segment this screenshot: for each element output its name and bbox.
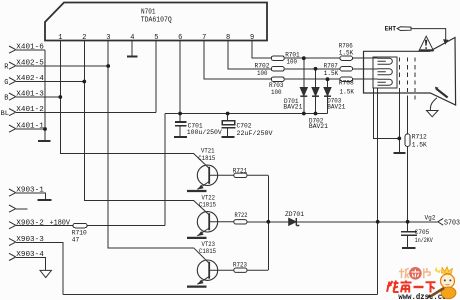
wire R710 to riser — [87, 225, 165, 227]
wire row B to R708 — [284, 78, 340, 80]
svg-text:R722: R722 — [235, 212, 248, 219]
junction heater ground — [397, 137, 401, 141]
svg-text:8: 8 — [226, 34, 230, 42]
cathode 1 — [378, 58, 393, 64]
VT21 emitter arrow — [198, 185, 204, 190]
wire C705 lower — [407, 236, 409, 248]
svg-text:6: 6 — [178, 34, 182, 42]
ghost circle xin — [409, 267, 422, 280]
wire X903-2 to R710 — [16, 225, 73, 227]
capacitor C705 plates — [401, 232, 417, 235]
wire pin8 to R702 — [228, 41, 271, 69]
junction D702 rail — [314, 112, 318, 116]
svg-text:22uF/250V: 22uF/250V — [237, 130, 273, 137]
svg-text:C1815: C1815 — [198, 155, 215, 162]
connector chevron X401-1 — [9, 125, 16, 132]
connector chevron X903-3 — [9, 238, 16, 245]
resistor R701 — [271, 56, 284, 60]
wire G1 lead to ground — [398, 88, 400, 152]
wire grid lead through R712 — [407, 96, 409, 222]
wire pin2 to VT22 collector — [84, 41, 194, 201]
wire ZD701 row: R722 to zener — [247, 221, 289, 223]
svg-text:5: 5 — [154, 34, 158, 42]
svg-text:7: 7 — [202, 34, 206, 42]
connector chevron X402-5 — [9, 62, 16, 69]
capacitor C701 plates — [175, 122, 187, 126]
connector chevron X401-2 — [9, 109, 16, 116]
svg-text:C1815: C1815 — [199, 248, 216, 255]
wire VT21 base to R721 — [209, 174, 234, 176]
wire C701 upper — [179, 114, 181, 122]
svg-text:TDA6107Q: TDA6107Q — [141, 16, 172, 24]
ground pin4 — [127, 55, 138, 57]
junction node B/pin1 — [58, 95, 62, 99]
anode arrowhead — [444, 40, 448, 44]
svg-text:X903-4: X903-4 — [16, 251, 44, 259]
mascot body — [441, 287, 456, 299]
wire G input X402-4 to pin2 — [16, 81, 84, 83]
wire R input X402-5 to pin3 — [16, 65, 108, 67]
wire EHT to anode — [411, 29, 446, 41]
svg-text:R710: R710 — [72, 230, 87, 237]
wire grid dashed G4 — [414, 58, 416, 103]
svg-text:X401-2: X401-2 — [16, 106, 44, 114]
VT23 emitter arrow — [198, 280, 204, 285]
ground C702 — [221, 136, 234, 138]
svg-text:VT23: VT23 — [202, 241, 216, 248]
junction node R/pin3 — [106, 64, 110, 68]
ground X903-1 — [38, 199, 52, 201]
wire D701 cathode to rail — [303, 96, 305, 114]
wire C701 lower — [179, 126, 181, 136]
resistor R721 — [234, 173, 247, 177]
wire BL input X401-2 to pin5 — [16, 112, 156, 114]
svg-text:4: 4 — [130, 34, 134, 42]
svg-text:+180V: +180V — [50, 219, 71, 227]
wire grid dashed G2 — [407, 58, 409, 97]
wire +180V riser to rail — [164, 114, 166, 226]
svg-text:X402-4: X402-4 — [16, 75, 44, 83]
earth arrow CRT — [427, 111, 439, 117]
svg-text:R703: R703 — [269, 82, 284, 89]
resistor R723 — [234, 268, 247, 272]
ghost text pian — [424, 268, 431, 278]
wire zener to Vg2 node — [296, 221, 437, 223]
transistor VT21 collector — [194, 154, 210, 169]
svg-text:BAV21: BAV21 — [327, 103, 345, 110]
wire R721 to common — [247, 174, 268, 176]
capacitor C702 lower plate — [222, 127, 236, 129]
svg-text:R723: R723 — [233, 261, 247, 268]
svg-text:Vg2: Vg2 — [425, 215, 436, 222]
wire pin7 to R703 — [204, 41, 271, 80]
wire row G to R707 — [284, 68, 340, 70]
transistor VT21 base bar — [208, 167, 210, 184]
arrow X903-4 — [40, 270, 51, 277]
svg-text:X401-1: X401-1 — [16, 123, 44, 131]
wire common base vertical R721/R722/R723 — [267, 175, 269, 270]
svg-text:X903-1: X903-1 — [16, 187, 44, 195]
svg-text:R707: R707 — [324, 62, 338, 69]
junction D703 top — [326, 77, 330, 81]
svg-text:1.5K: 1.5K — [412, 141, 427, 148]
svg-text:VT21: VT21 — [201, 148, 215, 155]
svg-text:47: 47 — [72, 237, 80, 244]
wire pin5 to BL line — [155, 41, 157, 113]
junction node G/pin2 — [82, 80, 86, 84]
connector chevron X903-1 — [9, 189, 16, 196]
wire R723 to common — [247, 269, 268, 271]
wire bottom rail — [63, 294, 378, 296]
zener ZD701 — [289, 218, 296, 225]
ground C701 — [174, 136, 187, 138]
wire D702 anode — [315, 69, 317, 88]
wire X903-1 — [16, 193, 46, 199]
wire VT22 base to R722 — [209, 221, 234, 223]
warning triangle high voltage — [419, 36, 434, 51]
svg-text:1.5K: 1.5K — [324, 70, 339, 77]
wire D702 cathode to rail — [315, 96, 317, 114]
connector chevron S703 — [438, 218, 443, 225]
transistor VT22 emitter — [197, 228, 209, 236]
sparkle — [435, 267, 442, 273]
CRT tube outline — [364, 38, 456, 106]
wire pin3 to VT23 collector — [108, 41, 194, 248]
svg-text:VT22: VT22 — [202, 194, 216, 201]
ghost text zhao — [399, 268, 409, 278]
ground VT23 — [187, 286, 207, 288]
wire pin1 vertical+horizontal to VT21 collector — [60, 41, 194, 154]
svg-text:G: G — [4, 79, 8, 87]
resistor R707 — [340, 67, 353, 71]
svg-text:X402-5: X402-5 — [16, 60, 44, 68]
svg-text:100: 100 — [257, 70, 268, 77]
wire Vg2 riser (socket to bottom rail) — [377, 88, 379, 295]
svg-text:BAV21: BAV21 — [309, 123, 328, 130]
wire D703 cathode to rail — [327, 96, 329, 114]
connector chevron X903-2 — [9, 222, 16, 229]
wire X401-1 to ground riser — [16, 128, 45, 130]
wire D703 anode — [327, 79, 329, 87]
ground X401 — [38, 140, 51, 142]
red text wei ku yi xia — [387, 281, 436, 293]
transistor VT23 base bar — [208, 262, 210, 279]
ground G1 — [394, 152, 406, 154]
connector chevron X401-6 — [9, 46, 16, 53]
svg-text:EHT: EHT — [385, 26, 397, 33]
wire C705 upper — [407, 222, 409, 232]
wire R706 to cathode1 — [353, 57, 378, 59]
svg-text:R712: R712 — [412, 133, 427, 140]
diode D703 — [324, 88, 331, 96]
CRT socket box — [373, 57, 397, 88]
junction C702 rail — [226, 112, 230, 116]
cathode 2 — [378, 69, 393, 75]
resistor R703 — [271, 77, 284, 81]
anode contact mark — [437, 89, 448, 97]
svg-text:C702: C702 — [237, 122, 252, 129]
wire 200V rail — [165, 113, 328, 115]
svg-text:1.5K: 1.5K — [340, 88, 355, 95]
svg-text:R708: R708 — [339, 80, 354, 87]
wire R708 to cathode3 — [353, 78, 378, 80]
svg-text:1: 1 — [58, 34, 62, 42]
transistor VT22 base bar — [208, 213, 210, 230]
wire spare pin chevron stub — [16, 208, 28, 210]
wire R707 to cathode2 — [353, 68, 378, 70]
transistor VT21 circle — [197, 165, 217, 185]
svg-text:R702: R702 — [255, 63, 270, 70]
wire X903-4 stub — [16, 257, 46, 270]
svg-text:S703: S703 — [444, 220, 460, 228]
junction Vg2 C705 — [406, 220, 410, 224]
wire B input X401-3 to pin1 — [16, 96, 60, 98]
wire VT23 base to R723 — [209, 269, 234, 271]
svg-text:BAV21: BAV21 — [283, 104, 302, 111]
svg-text:X401-3: X401-3 — [16, 91, 44, 99]
lightning bolt — [425, 40, 427, 49]
wire pin4 ground stub — [131, 41, 133, 56]
resistor R706 — [340, 56, 353, 60]
svg-text:BL: BL — [1, 110, 10, 117]
ground VT21 — [187, 190, 207, 192]
svg-text:9: 9 — [250, 34, 254, 42]
EHT connector symbol — [397, 27, 411, 31]
mascot brush — [430, 288, 445, 297]
svg-text:R721: R721 — [233, 168, 248, 175]
connector chevron spare — [9, 205, 16, 212]
mascot crown — [442, 267, 453, 274]
transistor VT23 collector — [194, 248, 210, 263]
junction D701 top — [302, 56, 306, 60]
wire pin9 to R701 — [252, 41, 271, 59]
svg-text:C705: C705 — [415, 229, 430, 236]
wire X401-6 ground riser — [44, 50, 46, 140]
wire D701 anode — [303, 58, 305, 87]
svg-text:3: 3 — [106, 34, 110, 42]
svg-text:2: 2 — [82, 34, 86, 42]
junction common base — [266, 220, 270, 224]
connector chevron X402-4 — [9, 78, 16, 85]
connector chevron X401-3 — [9, 93, 16, 100]
diode D702 — [312, 88, 319, 96]
resistor R712 — [405, 134, 410, 146]
wire connector X401-6 — [16, 49, 45, 51]
junction pin6 rail — [178, 112, 182, 116]
svg-text:100: 100 — [287, 59, 298, 66]
diode D701 — [300, 88, 307, 96]
op-amp U1 : IC N701 TDA6107Q body — [45, 3, 267, 41]
svg-text:X401-6: X401-6 — [16, 44, 44, 52]
transistor VT21 emitter — [197, 182, 209, 190]
junction Vg2 riser — [376, 220, 380, 224]
svg-text:1.5K: 1.5K — [339, 49, 354, 56]
ground VT22 — [187, 237, 207, 239]
wire heater pin to ground bus — [373, 88, 399, 138]
svg-text:X903-2: X903-2 — [16, 219, 44, 227]
anode mark arrowhead — [435, 87, 439, 91]
resistor R708 — [340, 77, 353, 81]
cathode 3 — [378, 79, 393, 85]
wire C702 upper — [227, 114, 229, 121]
transistor VT23 emitter — [197, 276, 209, 284]
VT22 emitter arrow — [198, 231, 204, 236]
transistor VT23 circle — [197, 260, 217, 280]
resistor R710 — [73, 223, 87, 227]
svg-text:100: 100 — [271, 89, 282, 96]
resistor R722 — [234, 220, 247, 224]
svg-text:100u/250V: 100u/250V — [187, 129, 222, 136]
wire C702 lower — [227, 128, 229, 136]
wire aquadag to earth — [430, 98, 436, 110]
svg-text:B: B — [4, 94, 8, 102]
connector chevron X903-4 — [9, 253, 16, 260]
wire row R to R706 — [284, 57, 340, 59]
svg-text:1n/2KV: 1n/2KV — [415, 237, 433, 244]
capacitor C702 plate box — [222, 121, 235, 125]
wire X903-3 down to bottom rail — [16, 242, 63, 294]
wire pin6 to 200V rail — [179, 41, 181, 114]
wire grid dashed G3 — [398, 58, 400, 89]
junction D701 rail — [302, 112, 306, 116]
transistor VT22 circle — [197, 212, 217, 232]
svg-text:ZD701: ZD701 — [285, 211, 304, 218]
transistor VT22 collector — [194, 201, 210, 215]
svg-text:R701: R701 — [285, 51, 300, 58]
svg-text:X903-3: X903-3 — [16, 236, 44, 244]
resistor R702 — [271, 67, 284, 71]
svg-text:C1815: C1815 — [199, 202, 216, 209]
junction D702 top — [314, 67, 318, 71]
watermark dzsc — [387, 267, 456, 300]
svg-text:N701: N701 — [141, 8, 156, 16]
ground C705 — [402, 247, 416, 249]
mascot head — [441, 274, 455, 288]
junction node X401-1 — [43, 127, 47, 131]
